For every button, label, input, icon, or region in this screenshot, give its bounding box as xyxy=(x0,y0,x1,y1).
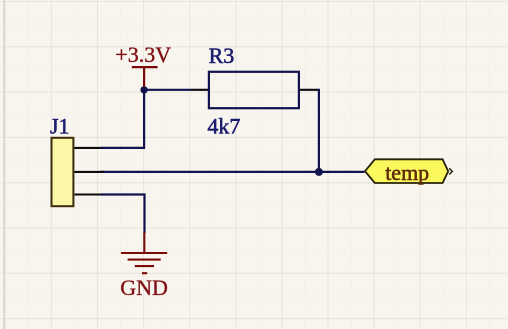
svg-text:J1: J1 xyxy=(50,113,70,138)
svg-text:+3.3V: +3.3V xyxy=(115,42,171,67)
svg-text:4k7: 4k7 xyxy=(207,114,240,139)
svg-text:GND: GND xyxy=(120,275,168,300)
svg-text:R3: R3 xyxy=(209,43,235,68)
svg-text:temp: temp xyxy=(385,160,429,185)
